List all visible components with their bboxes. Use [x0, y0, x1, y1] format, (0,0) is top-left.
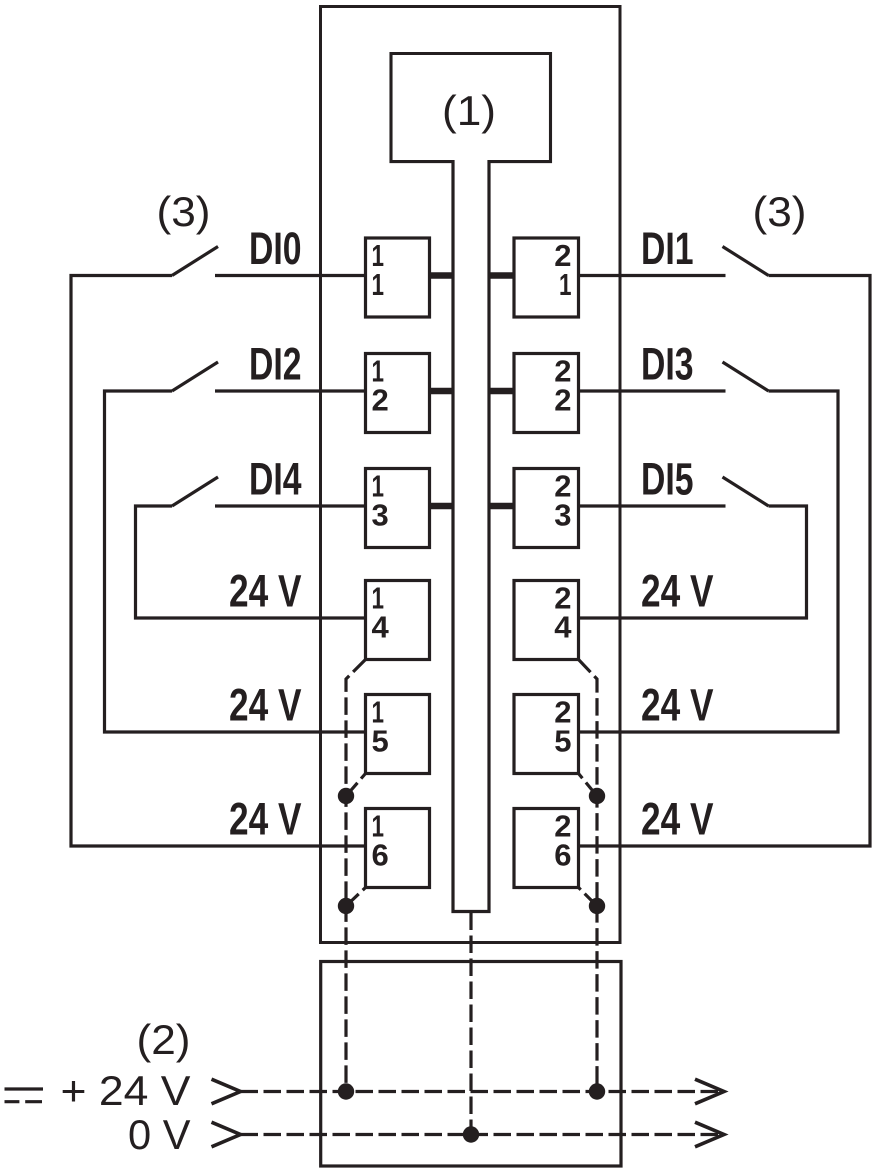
wire: ground/0V link from connector stem to 0V rail: [469, 913, 472, 1135]
svg-text:2: 2: [554, 383, 571, 418]
terminal 2/6 box: [514, 809, 579, 888]
wire: switch to terminal 2/2 (DI3 input): [579, 389, 726, 392]
wire: terminal 2/3 to bus stem: [489, 503, 514, 510]
svg-text:24 V: 24 V: [229, 794, 302, 845]
wire: switch to terminal 1/2 (DI2 input): [215, 389, 366, 392]
svg-text:(3): (3): [753, 188, 807, 235]
svg-text:+ 24 V: + 24 V: [61, 1067, 191, 1114]
svg-text:DI3: DI3: [641, 339, 694, 390]
svg-text:24 V: 24 V: [641, 566, 714, 617]
svg-text:0 V: 0 V: [128, 1111, 191, 1158]
svg-text:DI2: DI2: [249, 339, 302, 390]
wire: DI0 switch return bus to 24V terminal 1/6: [71, 276, 366, 847]
switch S1 blade (DI1): [723, 247, 769, 276]
wire: terminal 1/1 to bus stem: [430, 272, 454, 279]
svg-text:DI4: DI4: [249, 454, 302, 505]
svg-text:DI1: DI1: [641, 223, 694, 274]
wire: internal +24V link right (2/4,2/5,2/6 to +24V rail): [579, 660, 598, 1092]
svg-text:24 V: 24 V: [641, 794, 714, 845]
wire: dashed branch to terminal 1/6: [346, 888, 366, 907]
switch S0 blade (DI0): [172, 247, 218, 276]
wire: terminal 2/1 to bus stem: [489, 272, 514, 279]
svg-text:DI5: DI5: [641, 454, 694, 505]
terminal 2/1 box: [514, 238, 579, 317]
wire: switch to terminal 2/1 (DI1 input): [579, 274, 726, 277]
svg-text:5: 5: [372, 724, 389, 759]
junction node: 0V rail tap: [463, 1126, 479, 1142]
wire: switch to terminal 1/1 (DI0 input): [215, 274, 366, 277]
svg-text:24 V: 24 V: [641, 680, 714, 731]
terminal 1/3 box: [366, 469, 430, 548]
junction node: 2/6 tap: [589, 898, 605, 914]
svg-text:24 V: 24 V: [229, 566, 302, 617]
module outline (digital input module body): [321, 7, 621, 943]
switch S4 blade (DI4): [172, 477, 218, 506]
terminal 2/4 box: [514, 581, 579, 660]
connector arrow: 0V in: [212, 1122, 241, 1147]
terminal 1/5 box: [366, 695, 430, 774]
svg-text:5: 5: [554, 724, 571, 759]
power bus distribution box (2): [321, 962, 621, 1167]
switch S2 blade (DI2): [172, 362, 218, 391]
DC supply symbol: [5, 1089, 44, 1102]
junction node: right +24V rail tap: [589, 1083, 605, 1099]
wire: DI1 switch return bus to 24V terminal 2/6: [579, 276, 871, 847]
svg-text:6: 6: [554, 838, 571, 873]
wire: +24V supply rail: [241, 1090, 725, 1093]
wire: internal +24V link left (1/4,1/5,1/6 to +24V rail): [346, 660, 366, 1092]
wire: DI2 switch return bus to 24V terminal 1/5: [105, 391, 366, 732]
wire: dashed branch to terminal 1/5: [346, 774, 366, 797]
svg-text:DI0: DI0: [249, 223, 302, 274]
connector stem rails: [453, 160, 489, 912]
svg-text:(2): (2): [137, 1016, 191, 1063]
svg-text:(1): (1): [442, 87, 496, 134]
wire: terminal 1/2 to bus stem: [430, 388, 454, 395]
svg-text:4: 4: [372, 610, 390, 645]
wire: DI3 switch return bus to 24V terminal 2/5: [579, 391, 839, 732]
connector arrow: 0V out: [695, 1122, 724, 1147]
wire: DI4 switch return bus to 24V terminal 1/4: [136, 506, 366, 618]
terminal 2/2 box: [514, 354, 579, 433]
junction node: 1/5 tap: [338, 788, 354, 804]
connector arrow: +24V out: [695, 1079, 724, 1104]
junction node: left +24V rail tap: [338, 1083, 354, 1099]
switch S3 blade (DI3): [723, 362, 769, 391]
svg-text:3: 3: [372, 498, 389, 533]
terminal 1/2 box: [366, 354, 430, 433]
connector arrow: +24V in: [212, 1079, 241, 1104]
svg-text:(3): (3): [157, 188, 211, 235]
wire: switch to terminal 2/3 (DI5 input): [579, 504, 726, 507]
wire: DI5 switch return bus to 24V terminal 2/4: [579, 506, 807, 618]
switch S5 blade (DI5): [723, 477, 769, 506]
terminal 2/5 box: [514, 695, 579, 774]
terminal 1/6 box: [366, 809, 430, 888]
junction node: 2/5 tap: [589, 788, 605, 804]
svg-text:1: 1: [372, 267, 385, 302]
wire: terminal 1/3 to bus stem: [430, 503, 454, 510]
backplane bus connector U1 box (1) with stem: [391, 54, 551, 162]
wire: switch to terminal 1/3 (DI4 input): [215, 504, 366, 507]
svg-text:2: 2: [372, 383, 389, 418]
terminal 1/4 box: [366, 581, 430, 660]
svg-text:24 V: 24 V: [229, 680, 302, 731]
svg-text:4: 4: [554, 610, 572, 645]
svg-text:3: 3: [554, 498, 571, 533]
terminal 2/3 box: [514, 469, 579, 548]
wire: 0V supply rail: [241, 1133, 725, 1136]
svg-text:1: 1: [559, 267, 572, 302]
terminal 1/1 box: [366, 238, 430, 317]
svg-text:6: 6: [372, 838, 389, 873]
wire: dashed branch to terminal 2/6: [579, 888, 598, 907]
wire: terminal 2/2 to bus stem: [489, 388, 514, 395]
junction node: 1/6 tap: [338, 898, 354, 914]
wire: dashed branch to terminal 2/5: [579, 774, 598, 797]
